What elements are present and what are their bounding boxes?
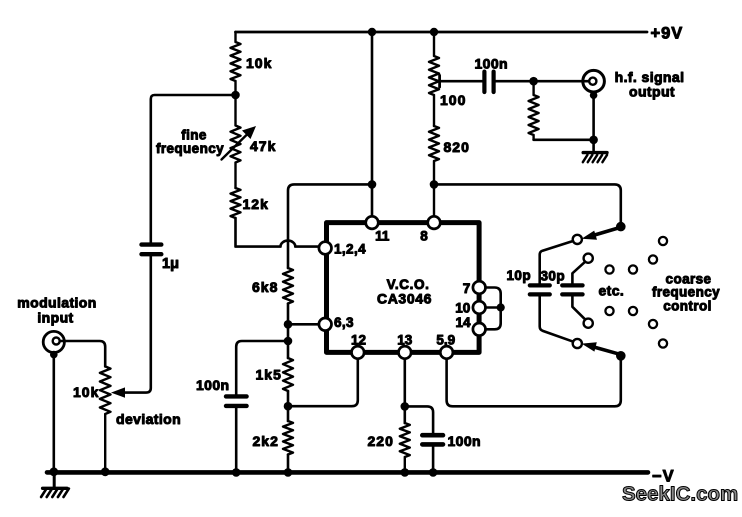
wire junction to 1u cap: [151, 95, 236, 243]
pot 47k fine frequency body: [231, 95, 241, 188]
pin 7 terminal: [473, 281, 486, 294]
svg-text:30p: 30p: [541, 269, 565, 284]
node output jack sleeve: [590, 91, 598, 99]
svg-text:100n: 100n: [196, 377, 230, 393]
node mod input ground on rail: [49, 467, 58, 476]
svg-text:100: 100: [440, 92, 466, 108]
resistor R 1k5 body: [283, 358, 293, 391]
node 100n-left tap junction: [284, 337, 293, 346]
wire 6k8 top to bias rail: [288, 184, 372, 268]
node 100n left on rail: [232, 468, 241, 477]
svg-text:10k: 10k: [73, 384, 99, 400]
svg-text:2k2: 2k2: [253, 433, 279, 449]
wire junction to pin 6,3: [288, 323, 319, 326]
svg-text:47k: 47k: [250, 138, 276, 154]
svg-text:6k8: 6k8: [252, 279, 278, 295]
svg-text:100n: 100n: [448, 433, 482, 449]
switch wiper arrow bottom: [593, 347, 620, 355]
wire coupling cap to output jack: [496, 80, 589, 83]
node pins tie junction: [497, 303, 505, 311]
svg-text:1μ: 1μ: [162, 256, 179, 272]
pin 14 terminal: [473, 323, 486, 336]
svg-text:100n: 100n: [475, 56, 509, 72]
svg-text:frequency: frequency: [652, 285, 720, 300]
svg-text:12: 12: [351, 333, 366, 348]
wire contact to 10p cap: [540, 241, 573, 283]
node 220 on rail: [401, 468, 410, 477]
node 10k/47k/1u junction: [231, 91, 240, 100]
wire 10p cap to bottom contact: [540, 294, 574, 341]
resistor R 820 body: [429, 126, 439, 217]
wire pins 7,10,14 tie: [486, 288, 501, 330]
svg-text:+9V: +9V: [651, 25, 684, 43]
pin 13 terminal: [399, 346, 412, 359]
pot 10k deviation body: [100, 366, 111, 470]
node 100n right on rail: [429, 468, 438, 477]
svg-text:frequency: frequency: [156, 141, 224, 156]
wire load resistor to jack sleeve: [534, 139, 594, 142]
node jack sleeve bottom: [589, 136, 598, 145]
wire pot tap to coupling cap: [439, 80, 483, 83]
resistor R 12k body: [231, 188, 241, 218]
svg-text:input: input: [37, 310, 73, 326]
node 820/pin8/switch junction: [430, 180, 439, 189]
svg-text:deviation: deviation: [116, 411, 181, 427]
wire output jack sleeve down: [592, 95, 595, 150]
svg-text:10k: 10k: [246, 55, 272, 71]
svg-text:SeekIC.com: SeekIC.com: [622, 483, 738, 506]
svg-text:CA3046: CA3046: [377, 291, 432, 307]
wire 100n right cap to rail: [432, 444, 435, 470]
wire 30p cap to bottom contact: [572, 294, 585, 319]
wire 30p top contact to cap: [572, 262, 585, 284]
svg-text:13: 13: [397, 333, 413, 348]
svg-text:220: 220: [368, 433, 394, 449]
svg-text:12k: 12k: [243, 196, 269, 212]
node pin11 wire on +9V rail: [368, 28, 376, 36]
wire 1k5 to 2k2: [287, 391, 290, 421]
svg-text:14: 14: [455, 315, 471, 330]
wire pin 12 to 1k5/2k2 junction: [288, 359, 358, 407]
svg-text:8: 8: [420, 229, 428, 244]
capacitor C 10p plates: [530, 285, 550, 294]
node 6k8/pin6,3 junction: [284, 320, 293, 329]
node load resistor junction: [529, 77, 538, 86]
ground modulation input: [53, 474, 56, 488]
pot wiper arrowhead into 10k deviation: [111, 387, 125, 397]
resistor R 6k8 body: [283, 268, 293, 304]
resistor R load body: [529, 81, 539, 140]
wire 1u cap to deviation pot wiper: [124, 254, 151, 392]
svg-text:1k5: 1k5: [256, 367, 282, 383]
node pin8 wire on +9V rail: [430, 28, 438, 36]
node 1k5/2k2/pin12 junction: [284, 402, 293, 411]
switch contact 30p bottom: [584, 319, 593, 328]
svg-text:6,3: 6,3: [334, 315, 354, 330]
node switch wiper bottom: [616, 351, 626, 361]
connector modulation input jack: [43, 331, 64, 352]
svg-text:1,2,4: 1,2,4: [334, 242, 366, 257]
wire pin 13 down to 220: [403, 359, 406, 423]
wire jack to 10k pot top: [60, 341, 105, 366]
resistor R 2k2 body: [283, 421, 293, 455]
capacitor C 100n right plates: [422, 435, 443, 444]
connector h.f. signal output jack: [583, 70, 605, 92]
svg-text:etc.: etc.: [599, 283, 625, 299]
resistor R 220 body: [400, 423, 410, 470]
pin 1,2,4 terminal: [319, 242, 332, 255]
wire 100n left cap bottom: [235, 406, 238, 470]
node jack sleeve: [50, 351, 58, 359]
svg-text:10p: 10p: [507, 268, 531, 283]
svg-text:output: output: [629, 84, 675, 100]
svg-text:5,9: 5,9: [436, 333, 455, 348]
wire -V bottom supply rail: [47, 470, 648, 475]
wire 12k to pin 1,2,4 with hop: [236, 218, 319, 247]
node pin13/220/100n junction: [401, 402, 410, 411]
svg-text:control: control: [663, 299, 712, 314]
pin 6,3 terminal: [319, 318, 332, 331]
pin 10 terminal: [473, 301, 486, 314]
node 2k2 on rail: [284, 468, 293, 477]
wire jack sleeve to ground rail: [52, 355, 55, 470]
ground output: [583, 151, 607, 154]
wire junction to 100n right cap: [405, 406, 433, 433]
wire 2k2 to rail: [287, 455, 290, 471]
svg-text:11: 11: [375, 229, 390, 244]
capacitor C 100n left plates: [226, 396, 247, 406]
wire switch bottom to pin 5,9: [447, 356, 621, 407]
pin 12 terminal: [352, 346, 365, 359]
capacitor C 1u plates: [142, 245, 162, 255]
pot 47k arrow: [222, 134, 249, 160]
svg-text:modulation: modulation: [17, 295, 96, 311]
switch contact bottom selected: [573, 339, 582, 348]
switch contact top selected: [573, 235, 582, 244]
node bias rail on pin11 wire: [368, 180, 377, 189]
wire 6k8 to 1k5: [287, 304, 290, 359]
switch contact 30p top: [584, 254, 593, 263]
pin 5,9 terminal: [440, 346, 453, 359]
wire 100n left cap top: [236, 341, 288, 394]
pin 8 terminal: [428, 216, 441, 229]
pot 100 tap tick: [438, 75, 441, 87]
pot 100 body: [429, 32, 439, 126]
node 10k pot on rail: [101, 467, 110, 476]
node switch wiper top: [616, 222, 626, 232]
switch wiper arrow top: [593, 228, 620, 236]
capacitor C 30p plates: [562, 285, 582, 294]
resistor R 10k body: [231, 32, 241, 95]
op-amp U1 V.C.O. CA3046 block: [327, 223, 480, 353]
capacitor C 100n coupling plates: [484, 72, 493, 92]
svg-text:10: 10: [455, 301, 470, 316]
svg-text:820: 820: [444, 139, 470, 155]
wire 820 junction to switch top: [434, 184, 621, 222]
switch spare contacts etc: [659, 237, 667, 245]
svg-text:7: 7: [463, 281, 471, 296]
wire +9V to pin 11: [371, 32, 374, 217]
wire +9V top supply rail: [236, 31, 648, 34]
pin 11 terminal: [366, 216, 379, 229]
